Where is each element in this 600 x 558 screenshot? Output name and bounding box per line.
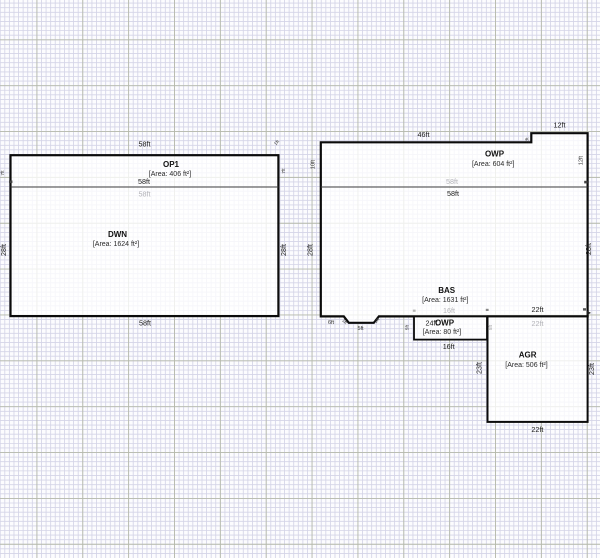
svg-text:OWP: OWP (435, 318, 455, 327)
svg-text:28ft: 28ft (279, 244, 288, 256)
svg-text:16ft: 16ft (443, 342, 455, 351)
tick at interior line right end (584, 181, 587, 184)
svg-text:16ft: 16ft (443, 306, 455, 315)
svg-text:58ft: 58ft (447, 189, 459, 198)
svg-text:6ft: 6ft (328, 320, 335, 326)
svg-text:5ft: 5ft (488, 324, 493, 330)
svg-text:BAS: BAS (438, 286, 456, 295)
tiny arrow mark at BAS bottom-right corner (587, 311, 592, 316)
svg-text:[Area: 1631 ft²]: [Area: 1631 ft²] (422, 297, 468, 304)
svg-text:22ft: 22ft (532, 319, 544, 328)
svg-text:[Area: 406 ft²]: [Area: 406 ft²] (149, 171, 191, 178)
AGR box outline (488, 316, 588, 422)
interior apportionment line OP1/DWN (11, 186, 279, 188)
svg-text:12ft: 12ft (554, 120, 566, 129)
svg-text:OP1: OP1 (163, 160, 180, 169)
svg-text:[Area: 1624 ft²]: [Area: 1624 ft²] (93, 241, 139, 248)
svg-text:10ft: 10ft (311, 159, 317, 169)
svg-text:[Area: 604 ft²]: [Area: 604 ft²] (472, 161, 514, 168)
svg-text:22ft: 22ft (531, 425, 543, 434)
svg-text:5ft: 5ft (405, 324, 410, 330)
interior apportionment line OWP/BAS (321, 186, 588, 188)
svg-text:58ft: 58ft (138, 177, 150, 186)
svg-text:58ft: 58ft (139, 189, 151, 198)
svg-text:22ft: 22ft (532, 305, 544, 314)
tiny gray tick right of 16ft (486, 309, 489, 311)
svg-text:[Area: 80 ft²]: [Area: 80 ft²] (423, 329, 462, 336)
svg-text:7ft: 7ft (0, 170, 5, 176)
svg-text:28ft: 28ft (0, 244, 8, 256)
svg-text:AGR: AGR (519, 351, 537, 360)
svg-text:5ft: 5ft (357, 326, 364, 332)
OWP lower box outline (414, 316, 487, 339)
svg-text:58ft: 58ft (139, 140, 151, 149)
svg-text:23ft: 23ft (474, 362, 483, 374)
svg-text:58ft: 58ft (446, 177, 458, 186)
svg-text:2ft: 2ft (525, 137, 530, 143)
svg-text:DWN: DWN (108, 230, 127, 239)
tick at interior line left end (9, 181, 12, 184)
svg-text:23ft: 23ft (587, 363, 596, 375)
svg-text:28ft: 28ft (584, 243, 593, 255)
svg-text:46ft: 46ft (418, 130, 430, 139)
svg-text:7ft: 7ft (281, 168, 286, 174)
svg-text:28ft: 28ft (306, 244, 315, 256)
svg-text:[Area: 506 ft²]: [Area: 506 ft²] (505, 362, 547, 369)
svg-text:58ft: 58ft (139, 318, 151, 327)
building 2 outline (OWP/BAS) with top-right step and bottom-left bay notch (321, 133, 588, 323)
tiny gray tick left of 16ft (413, 310, 416, 312)
tiny tick right of 22ft (583, 308, 586, 310)
building 1 outline (DWN/OP1) (11, 155, 279, 316)
svg-text:OWP: OWP (485, 149, 505, 158)
svg-text:12ft: 12ft (579, 155, 585, 165)
